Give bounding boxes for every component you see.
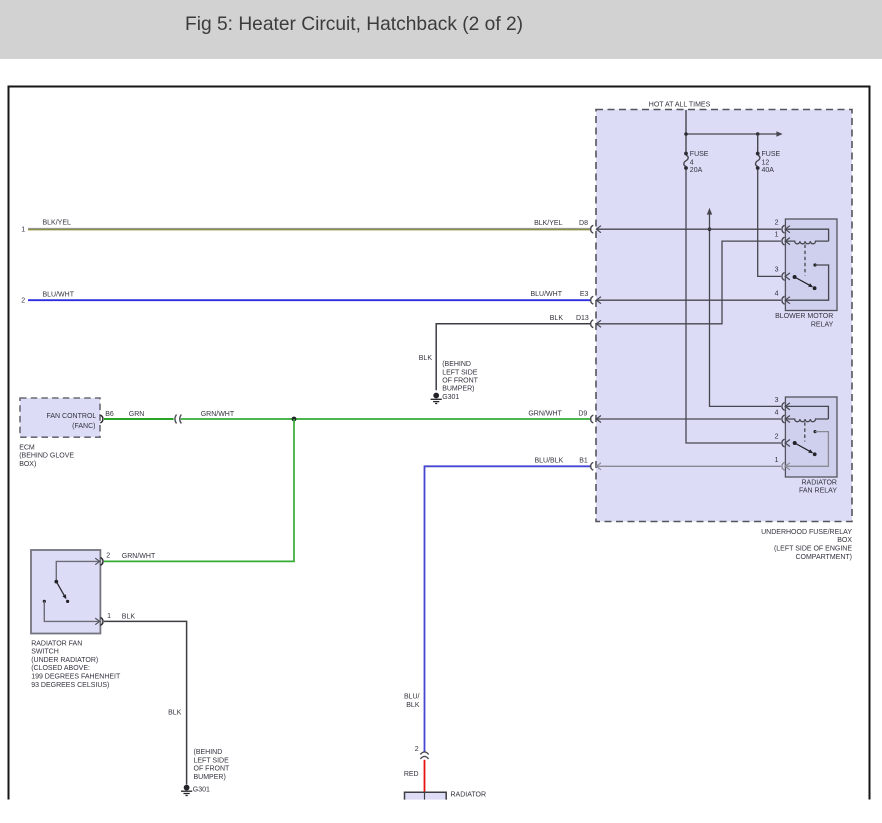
radiator fan switch body	[31, 550, 100, 634]
svg-text:OF FRONT: OF FRONT	[194, 766, 230, 773]
blower relay contacts	[785, 263, 828, 300]
radiator fan relay body	[785, 397, 837, 477]
label: (BEHIND LEFT SIDE OF FRONT BUMPER) mid	[442, 361, 478, 392]
svg-text:12: 12	[762, 160, 770, 167]
label: (BEHIND LEFT SIDE OF FRONT BUMPER) bottom	[194, 749, 230, 781]
wire: D13 to blower relay pin 1	[596, 241, 781, 324]
svg-text:4: 4	[690, 160, 694, 167]
svg-text:COMPARTMENT): COMPARTMENT)	[795, 554, 852, 561]
label: switch pin 2 / GRN/WHT	[106, 553, 156, 561]
wire: E3 to blower relay pin 4	[596, 299, 781, 301]
svg-text:BLU/BLK: BLU/BLK	[535, 457, 564, 464]
connector D13	[591, 320, 601, 328]
label: blower relay pin numbers	[775, 219, 779, 297]
svg-text:BLK/YEL: BLK/YEL	[43, 220, 72, 227]
switch internal: pin 2 leg	[56, 561, 99, 580]
svg-text:D13: D13	[576, 315, 589, 322]
wire: BLK/YEL row (two-tone)	[28, 229, 590, 230]
svg-text:GRN/WHT: GRN/WHT	[528, 410, 562, 417]
svg-text:(BEHIND: (BEHIND	[194, 749, 223, 756]
label: FUSE 12 40A	[762, 151, 781, 174]
fuse F12	[756, 152, 760, 170]
connector: inline harness ((	[175, 415, 181, 424]
wire: D8 to blower relay pin 2	[596, 228, 781, 230]
blower motor relay body	[785, 219, 837, 311]
svg-text:2: 2	[106, 553, 110, 560]
svg-text:(BEHIND: (BEHIND	[442, 361, 471, 368]
junction: bus at fuse 4	[684, 132, 688, 136]
svg-text:4: 4	[775, 290, 779, 297]
svg-text:RADIATOR: RADIATOR	[801, 479, 837, 486]
blower relay pin connectors 2,1,3,4	[782, 225, 790, 304]
svg-text:(LEFT SIDE OF ENGINE: (LEFT SIDE OF ENGINE	[774, 546, 852, 553]
label: BLOWER MOTOR RELAY	[775, 313, 834, 329]
svg-text:(CLOSED ABOVE:: (CLOSED ABOVE:	[31, 665, 90, 672]
svg-text:2: 2	[415, 746, 419, 753]
svg-text:BLU/WHT: BLU/WHT	[531, 291, 563, 298]
svg-text:BLK: BLK	[419, 355, 433, 362]
label: FAN CONTROL (FANC)	[47, 413, 97, 430]
wire: GRN/WHT down to radiator fan switch	[104, 419, 294, 561]
svg-text:BLK/YEL: BLK/YEL	[534, 220, 563, 227]
svg-text:BLK: BLK	[406, 702, 420, 709]
switch contacts	[43, 580, 69, 603]
radiator relay pin connectors 3,4,2,1	[782, 403, 790, 471]
ground G301 (bottom left)	[181, 785, 192, 796]
svg-text:D9: D9	[578, 410, 587, 417]
switch internal: pin 1 leg	[44, 601, 99, 621]
radiator relay contacts	[785, 430, 828, 466]
svg-text:2: 2	[775, 433, 779, 440]
svg-text:2: 2	[21, 297, 25, 304]
junction: bus at fuse 12	[756, 132, 760, 136]
svg-text:RADIATOR FAN: RADIATOR FAN	[31, 640, 82, 647]
svg-text:BUMPER): BUMPER)	[194, 774, 226, 781]
svg-text:RELAY: RELAY	[811, 322, 834, 329]
svg-text:FAN CONTROL: FAN CONTROL	[47, 413, 97, 420]
wire: BLU/WHT row	[28, 299, 590, 301]
label: FUSE 4 20A	[690, 151, 709, 174]
wire: GRN/WHT to D9	[181, 418, 590, 420]
switch pin 1 connector	[95, 618, 103, 626]
wire: BLK from switch pin 1 to ground	[104, 621, 187, 784]
ground G301 (mid)	[431, 393, 442, 404]
header bar	[0, 0, 882, 59]
label: ECM (BEHIND GLOVE BOX)	[19, 444, 74, 468]
label: RADIATOR FAN SWITCH block	[31, 640, 121, 689]
blower relay plunger (dashed)	[804, 245, 806, 276]
connector B1	[591, 462, 601, 470]
svg-text:RADIATOR: RADIATOR	[451, 792, 487, 799]
wire: battery feed vertical into box	[685, 110, 687, 153]
svg-text:B6: B6	[105, 411, 114, 418]
label: radiator relay pin numbers	[775, 397, 779, 464]
radiator relay coil	[785, 406, 828, 421]
svg-text:GRN: GRN	[129, 411, 145, 418]
svg-text:BLK: BLK	[168, 710, 182, 717]
wire: bus between fuse 4 and fuse 12	[686, 133, 758, 135]
wire: GRN from ECM	[104, 418, 174, 420]
svg-text:GRN/WHT: GRN/WHT	[122, 553, 156, 560]
svg-text:BLU/WHT: BLU/WHT	[43, 291, 75, 298]
svg-text:ECM: ECM	[19, 444, 35, 451]
wire: fuse 12 output down to blower relay pin 3	[758, 170, 781, 277]
svg-text:(BEHIND GLOVE: (BEHIND GLOVE	[19, 453, 74, 460]
blower relay coil	[785, 229, 828, 244]
wire: bus down to fuse 12	[757, 134, 759, 153]
svg-text:SWITCH: SWITCH	[31, 649, 59, 656]
label: switch pin 1 / BLK	[107, 613, 135, 621]
wire: B1 to radiator fan relay pin 1	[596, 465, 781, 467]
wire: bus stub with right arrow	[758, 133, 777, 135]
junction: branch at BLK/YEL row	[708, 227, 712, 231]
svg-text:FUSE: FUSE	[690, 151, 709, 158]
svg-text:G301: G301	[193, 787, 210, 794]
svg-text:E3: E3	[580, 291, 589, 298]
switch pin 2 connector	[95, 558, 103, 566]
ECM fan control box	[20, 398, 100, 437]
svg-text:B1: B1	[579, 457, 588, 464]
svg-text:BLOWER MOTOR: BLOWER MOTOR	[775, 313, 833, 320]
svg-text:G301: G301	[442, 394, 459, 401]
svg-text:LEFT SIDE: LEFT SIDE	[194, 757, 230, 764]
wire: sense branch with up arrow down to radiator relay pin 3	[707, 208, 712, 215]
svg-text:BLK: BLK	[122, 613, 136, 620]
label: BLU/ BLK vertical run	[404, 694, 420, 709]
svg-text:4: 4	[775, 410, 779, 417]
junction: fan control node	[292, 417, 297, 422]
label: UNDERHOOD FUSE/RELAY BOX	[761, 529, 852, 561]
svg-text:1: 1	[775, 231, 779, 238]
wire: fuse 4 output down to radiator fan relay pin 2	[686, 170, 781, 444]
svg-text:1: 1	[107, 613, 111, 620]
fuse F4	[684, 152, 688, 170]
svg-text:40A: 40A	[762, 167, 775, 174]
title caption	[185, 14, 523, 36]
svg-text:3: 3	[775, 397, 779, 404]
wire: D9 to radiator fan relay pin 4	[596, 418, 781, 420]
svg-text:199 DEGREES FAHENHEIT: 199 DEGREES FAHENHEIT	[31, 674, 121, 681]
svg-text:FAN RELAY: FAN RELAY	[799, 488, 837, 495]
svg-text:(FANC): (FANC)	[72, 423, 95, 430]
svg-text:D8: D8	[579, 220, 588, 227]
svg-text:93 DEGREES CELSIUS): 93 DEGREES CELSIUS)	[31, 682, 109, 689]
svg-text:HOT AT ALL TIMES: HOT AT ALL TIMES	[649, 101, 711, 108]
svg-text:UNDERHOOD FUSE/RELAY: UNDERHOOD FUSE/RELAY	[761, 529, 852, 536]
svg-text:LEFT SIDE: LEFT SIDE	[442, 369, 478, 376]
radiator relay plunger (dashed)	[804, 422, 806, 441]
svg-text:(UNDER RADIATOR): (UNDER RADIATOR)	[31, 657, 98, 664]
svg-text:BOX): BOX)	[19, 461, 36, 468]
connector D8	[591, 225, 601, 233]
svg-text:BLK: BLK	[550, 315, 564, 322]
svg-text:20A: 20A	[690, 167, 703, 174]
svg-text:1: 1	[775, 457, 779, 464]
connector: radiator harness pin 2	[420, 752, 428, 759]
svg-text:3: 3	[775, 267, 779, 274]
connector E3	[591, 296, 601, 304]
svg-text:FUSE: FUSE	[762, 151, 781, 158]
svg-text:RED: RED	[404, 771, 419, 778]
wire: RED into radiator	[424, 760, 426, 793]
svg-text:BLU/: BLU/	[404, 694, 420, 701]
pin B6 connector	[100, 415, 103, 423]
connector D9	[591, 415, 601, 423]
radiator (clipped at frame bottom)	[405, 792, 447, 799]
wire: BLK from D13 down to ground	[436, 324, 590, 390]
svg-text:GRN/WHT: GRN/WHT	[201, 411, 235, 418]
underhood fuse/relay box	[596, 110, 852, 522]
svg-text:OF FRONT: OF FRONT	[442, 377, 478, 384]
svg-text:BOX: BOX	[837, 537, 852, 544]
label: RADIATOR FAN RELAY	[799, 479, 837, 494]
wire: BLU/BLK from B1 down to radiator	[425, 466, 591, 752]
svg-text:1: 1	[21, 226, 25, 233]
svg-text:BUMPER): BUMPER)	[442, 386, 474, 393]
svg-text:2: 2	[775, 219, 779, 226]
